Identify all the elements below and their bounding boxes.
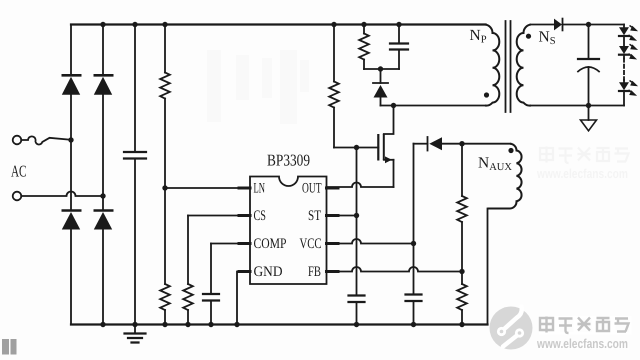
wire top rail xyxy=(71,23,486,25)
watermark logo circle xyxy=(490,307,533,350)
watermark bottom left xyxy=(2,339,17,355)
ground main xyxy=(125,325,146,343)
wire secondary top xyxy=(531,24,555,26)
svg-text:VCC: VCC xyxy=(300,236,322,252)
resistor R5 snubber xyxy=(359,25,369,70)
wire AC2 with hop xyxy=(21,192,103,197)
node LN junction xyxy=(162,185,167,190)
pin stub ST xyxy=(327,214,339,217)
ground secondary xyxy=(581,106,597,131)
wire dashed led xyxy=(623,59,625,81)
inductor NP primary winding xyxy=(485,25,499,106)
capacitor C3 st xyxy=(349,296,365,325)
svg-text:ST: ST xyxy=(308,208,321,224)
resistor R1 startup upper xyxy=(160,25,170,189)
wire COMP to IC xyxy=(211,243,250,245)
LED arrows D10 xyxy=(629,81,639,96)
node gate junction xyxy=(354,145,359,150)
pin stub COMP xyxy=(239,242,250,245)
node FB junction xyxy=(459,269,464,274)
node drain junction xyxy=(391,103,396,108)
pin stub GND xyxy=(239,270,250,273)
node secondary phase dot xyxy=(526,34,531,39)
wire bottom rail xyxy=(71,323,488,325)
node rail x364 xyxy=(361,22,366,27)
node rail x135 xyxy=(132,22,137,27)
wire ST to IC xyxy=(327,215,357,217)
wire AC1 node down xyxy=(70,140,72,210)
inductor NAUX winding xyxy=(488,144,522,209)
LED D10 xyxy=(619,80,629,106)
wire VCC with hop xyxy=(327,239,414,244)
resistor R2 startup lower xyxy=(160,188,170,325)
svg-text:www.elecfans.com: www.elecfans.com xyxy=(536,336,628,351)
watermark faint center xyxy=(207,50,309,124)
wire GND to IC xyxy=(237,272,250,325)
svg-text:OUT: OUT xyxy=(302,181,322,197)
LED arrows D8 xyxy=(629,26,639,41)
resistor R3 CS xyxy=(183,216,193,325)
wire primary bottom xyxy=(381,105,486,107)
diode D7 output rectifier xyxy=(554,19,624,31)
transistor Q1 MOSFET xyxy=(378,106,393,188)
capacitor C5 vcc xyxy=(406,295,422,325)
svg-text:LN: LN xyxy=(254,181,266,197)
pin stub OUT xyxy=(327,187,339,190)
svg-text:GND: GND xyxy=(254,264,283,280)
node rail x399 xyxy=(396,22,401,27)
wire left vertical upper xyxy=(70,25,72,75)
node ST junction xyxy=(354,213,359,218)
svg-text:FB: FB xyxy=(308,264,321,280)
diode D4 bridge xyxy=(94,211,114,325)
pin stub CS xyxy=(239,214,250,217)
diode D1 bridge xyxy=(62,75,82,140)
diode D5 clamp xyxy=(373,69,388,106)
node rail x165 xyxy=(162,22,167,27)
watermark faint top right xyxy=(536,147,628,182)
watermark text bottom right xyxy=(536,317,630,353)
LED string xyxy=(623,25,625,28)
pin stub LN xyxy=(239,187,250,190)
capacitor C1 bulk xyxy=(124,25,146,325)
svg-text:AC: AC xyxy=(11,162,27,181)
wire aux return xyxy=(487,209,489,325)
node AC2 junction xyxy=(100,193,105,198)
diode D6 vcc xyxy=(414,137,511,151)
fuse F1 xyxy=(21,136,71,144)
node snubber junction xyxy=(378,66,383,71)
node rail x103 xyxy=(100,22,105,27)
svg-text:www.elecfans.com: www.elecfans.com xyxy=(536,166,628,181)
wire gate-ST vertical xyxy=(356,148,358,296)
terminal AC top xyxy=(13,136,22,145)
transformer core xyxy=(506,21,511,112)
node aux phase dot xyxy=(508,148,513,153)
diode D3 bridge xyxy=(62,211,82,325)
node rail bottom dots xyxy=(100,322,464,327)
wire CS to IC xyxy=(188,215,250,217)
LED arrows D9 xyxy=(629,44,639,59)
resistor R4 gate xyxy=(329,25,339,148)
node rail x334 xyxy=(331,22,336,27)
capacitor C4 snubber xyxy=(390,25,408,70)
terminal AC bottom xyxy=(13,192,22,201)
LED D9 xyxy=(619,46,629,59)
wire snubber bottom xyxy=(364,68,399,70)
LED D8 xyxy=(619,27,629,46)
resistor R7 fb lower xyxy=(457,272,467,325)
svg-text:COMP: COMP xyxy=(254,236,287,252)
node VCC junction xyxy=(411,241,416,246)
svg-text:BP3309: BP3309 xyxy=(267,151,310,170)
resistor R6 fb upper xyxy=(457,144,467,272)
inductor NS secondary winding xyxy=(517,25,531,106)
node out cap top xyxy=(586,22,591,27)
capacitor C2 comp xyxy=(203,244,219,325)
wire OUT to source with hop xyxy=(327,183,394,188)
capacitor C6 output xyxy=(578,25,599,106)
node aux top junction xyxy=(459,141,464,146)
wire secondary bottom xyxy=(531,105,625,107)
pin stub VCC xyxy=(327,242,339,245)
wire second vertical upper xyxy=(102,25,104,75)
node AC line1 xyxy=(68,137,73,142)
op-amp U1 BP3309 body xyxy=(250,177,327,285)
pin stub FB xyxy=(327,270,339,273)
wire FB with hops xyxy=(327,267,463,272)
wire gate horizontal xyxy=(334,147,378,149)
svg-text:CS: CS xyxy=(254,208,267,224)
node primary phase dot xyxy=(484,92,489,97)
wire LN to IC xyxy=(165,187,250,189)
node out cap bottom xyxy=(586,103,591,108)
diode D2 bridge xyxy=(94,75,114,210)
wire vcc vertical xyxy=(413,144,415,295)
